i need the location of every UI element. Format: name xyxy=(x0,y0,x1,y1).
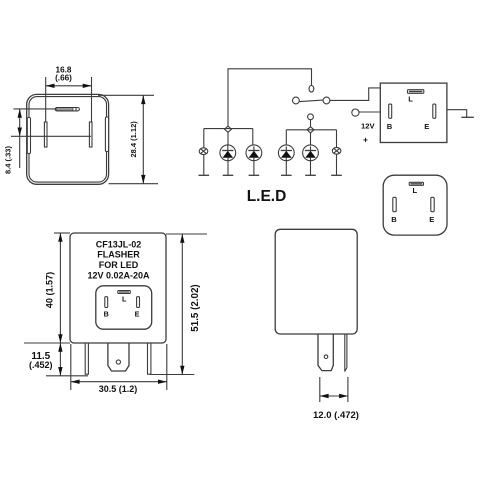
terminal pin E (right) xyxy=(148,343,151,374)
switch terminal right xyxy=(323,97,330,104)
12V supply terminal xyxy=(352,109,381,116)
switch S pivot contact xyxy=(309,86,314,93)
ground lamp 1 xyxy=(199,155,210,176)
pin label E xyxy=(424,122,429,131)
svg-text:B: B xyxy=(387,122,393,131)
dimension 40 (1.57) xyxy=(44,233,70,343)
pin label B xyxy=(104,309,109,318)
wire to LED D1 xyxy=(227,131,229,145)
pin slot L xyxy=(118,291,131,294)
svg-text:FLASHER: FLASHER xyxy=(97,250,140,260)
svg-text:L: L xyxy=(122,294,127,303)
ground LED D1 xyxy=(223,158,234,176)
pin label B xyxy=(391,215,397,224)
pin label B xyxy=(387,122,393,131)
right group terminal circle xyxy=(308,114,314,120)
mounting tab (center) xyxy=(108,343,129,371)
pin slot E xyxy=(431,197,434,211)
right side notch xyxy=(105,117,108,152)
svg-text:30.5 (1.2): 30.5 (1.2) xyxy=(99,384,138,394)
pin slot L xyxy=(408,90,424,94)
flasher body front view xyxy=(70,233,166,343)
terminal pin B (left) xyxy=(85,343,88,374)
marking text CF13JL-02 xyxy=(96,239,142,249)
LED D3 xyxy=(278,145,294,161)
pin slot B xyxy=(389,104,392,118)
pin label L xyxy=(122,294,127,303)
label L.E.D xyxy=(247,188,287,205)
LED D1 xyxy=(220,145,236,161)
dimension 51.5 (2.02) xyxy=(150,234,207,375)
LED D2 xyxy=(246,145,262,161)
ground lamp 2 xyxy=(331,154,342,175)
pin slot E (right) xyxy=(89,122,92,147)
mounting tab side xyxy=(318,334,333,371)
svg-text:12V: 12V xyxy=(361,121,375,130)
label 12V xyxy=(361,121,375,130)
pin slot B xyxy=(105,297,108,308)
lamp 2 (indicator) xyxy=(332,147,341,154)
pin slot E xyxy=(433,104,436,118)
pin label E xyxy=(135,309,140,318)
ground (chassis) right xyxy=(447,110,474,118)
dimension 16.8 (.66) xyxy=(46,65,92,122)
wire to LED D3 xyxy=(285,130,287,147)
pin slot B xyxy=(393,197,396,211)
wire to lamp 1 xyxy=(203,129,205,148)
wire to LED D4 xyxy=(310,133,312,147)
pin slot L xyxy=(409,182,423,185)
connector body xyxy=(383,175,447,235)
pin slot E xyxy=(137,297,140,308)
dimension 11.5 (.452) xyxy=(24,343,88,376)
svg-text:28.4 (1.12): 28.4 (1.12) xyxy=(129,121,138,158)
dimension 28.4 (1.12) xyxy=(98,95,158,183)
marking text FLASHER xyxy=(97,250,140,260)
terminal pin side xyxy=(345,334,347,372)
left side notch xyxy=(27,118,30,154)
node (right LED group junction) xyxy=(307,127,314,133)
switch terminal left xyxy=(293,97,300,104)
wire from switch to relay pin L xyxy=(330,88,380,101)
wire to LED D2 xyxy=(252,129,254,147)
svg-text:(.452): (.452) xyxy=(29,360,53,370)
pin label L xyxy=(413,186,418,195)
svg-text:40 (1.57): 40 (1.57) xyxy=(44,272,54,308)
ground LED D4 xyxy=(305,158,316,176)
left group bus wire xyxy=(204,128,253,130)
ground LED D3 xyxy=(281,158,292,176)
svg-text:12.0 (.472): 12.0 (.472) xyxy=(313,410,359,421)
svg-text:(.66): (.66) xyxy=(55,73,72,82)
marking text 12V 0.02A-20A xyxy=(87,271,150,281)
svg-text:+: + xyxy=(363,135,368,145)
svg-text:E: E xyxy=(429,215,434,224)
relay U1 flasher box xyxy=(380,83,447,142)
svg-text:E: E xyxy=(135,309,140,318)
svg-text:L: L xyxy=(413,186,418,195)
svg-text:B: B xyxy=(104,309,109,318)
flasher body side view xyxy=(275,229,357,334)
dimension 30.5 (1.2) xyxy=(71,344,167,394)
node (left LED group junction) xyxy=(225,126,232,132)
relay body outline (bottom view) xyxy=(27,94,109,184)
lamp 1 (indicator) xyxy=(199,148,208,155)
dimension 12.0 (.472) xyxy=(313,377,359,421)
marking text FOR LED xyxy=(99,260,139,270)
dimension 8.4 (.33) xyxy=(3,109,91,174)
wire to lamp 2 xyxy=(336,130,338,147)
svg-text:FOR LED: FOR LED xyxy=(99,260,139,270)
LED D4 xyxy=(303,145,319,161)
svg-text:51.5 (2.02): 51.5 (2.02) xyxy=(190,284,201,331)
switch lever xyxy=(299,100,323,102)
svg-text:CF13JL-02: CF13JL-02 xyxy=(96,239,142,249)
svg-text:12V 0.02A-20A: 12V 0.02A-20A xyxy=(87,271,150,281)
connector recess xyxy=(96,286,152,329)
pin label L xyxy=(408,95,413,104)
wire from left LED group node up and right to switch xyxy=(228,69,312,129)
right group bus wire xyxy=(286,129,336,131)
ground LED D2 xyxy=(249,158,260,176)
pin slot B (left) xyxy=(44,122,47,147)
svg-text:E: E xyxy=(424,122,429,131)
label + xyxy=(363,135,368,145)
pin slot L (hatched pin, top) xyxy=(14,108,80,111)
svg-text:L.E.D: L.E.D xyxy=(247,188,287,205)
wire terminal to right node xyxy=(310,120,312,127)
svg-text:8.4 (.33): 8.4 (.33) xyxy=(3,146,12,174)
pin label E xyxy=(429,215,434,224)
svg-text:B: B xyxy=(391,215,397,224)
svg-text:L: L xyxy=(408,95,413,104)
